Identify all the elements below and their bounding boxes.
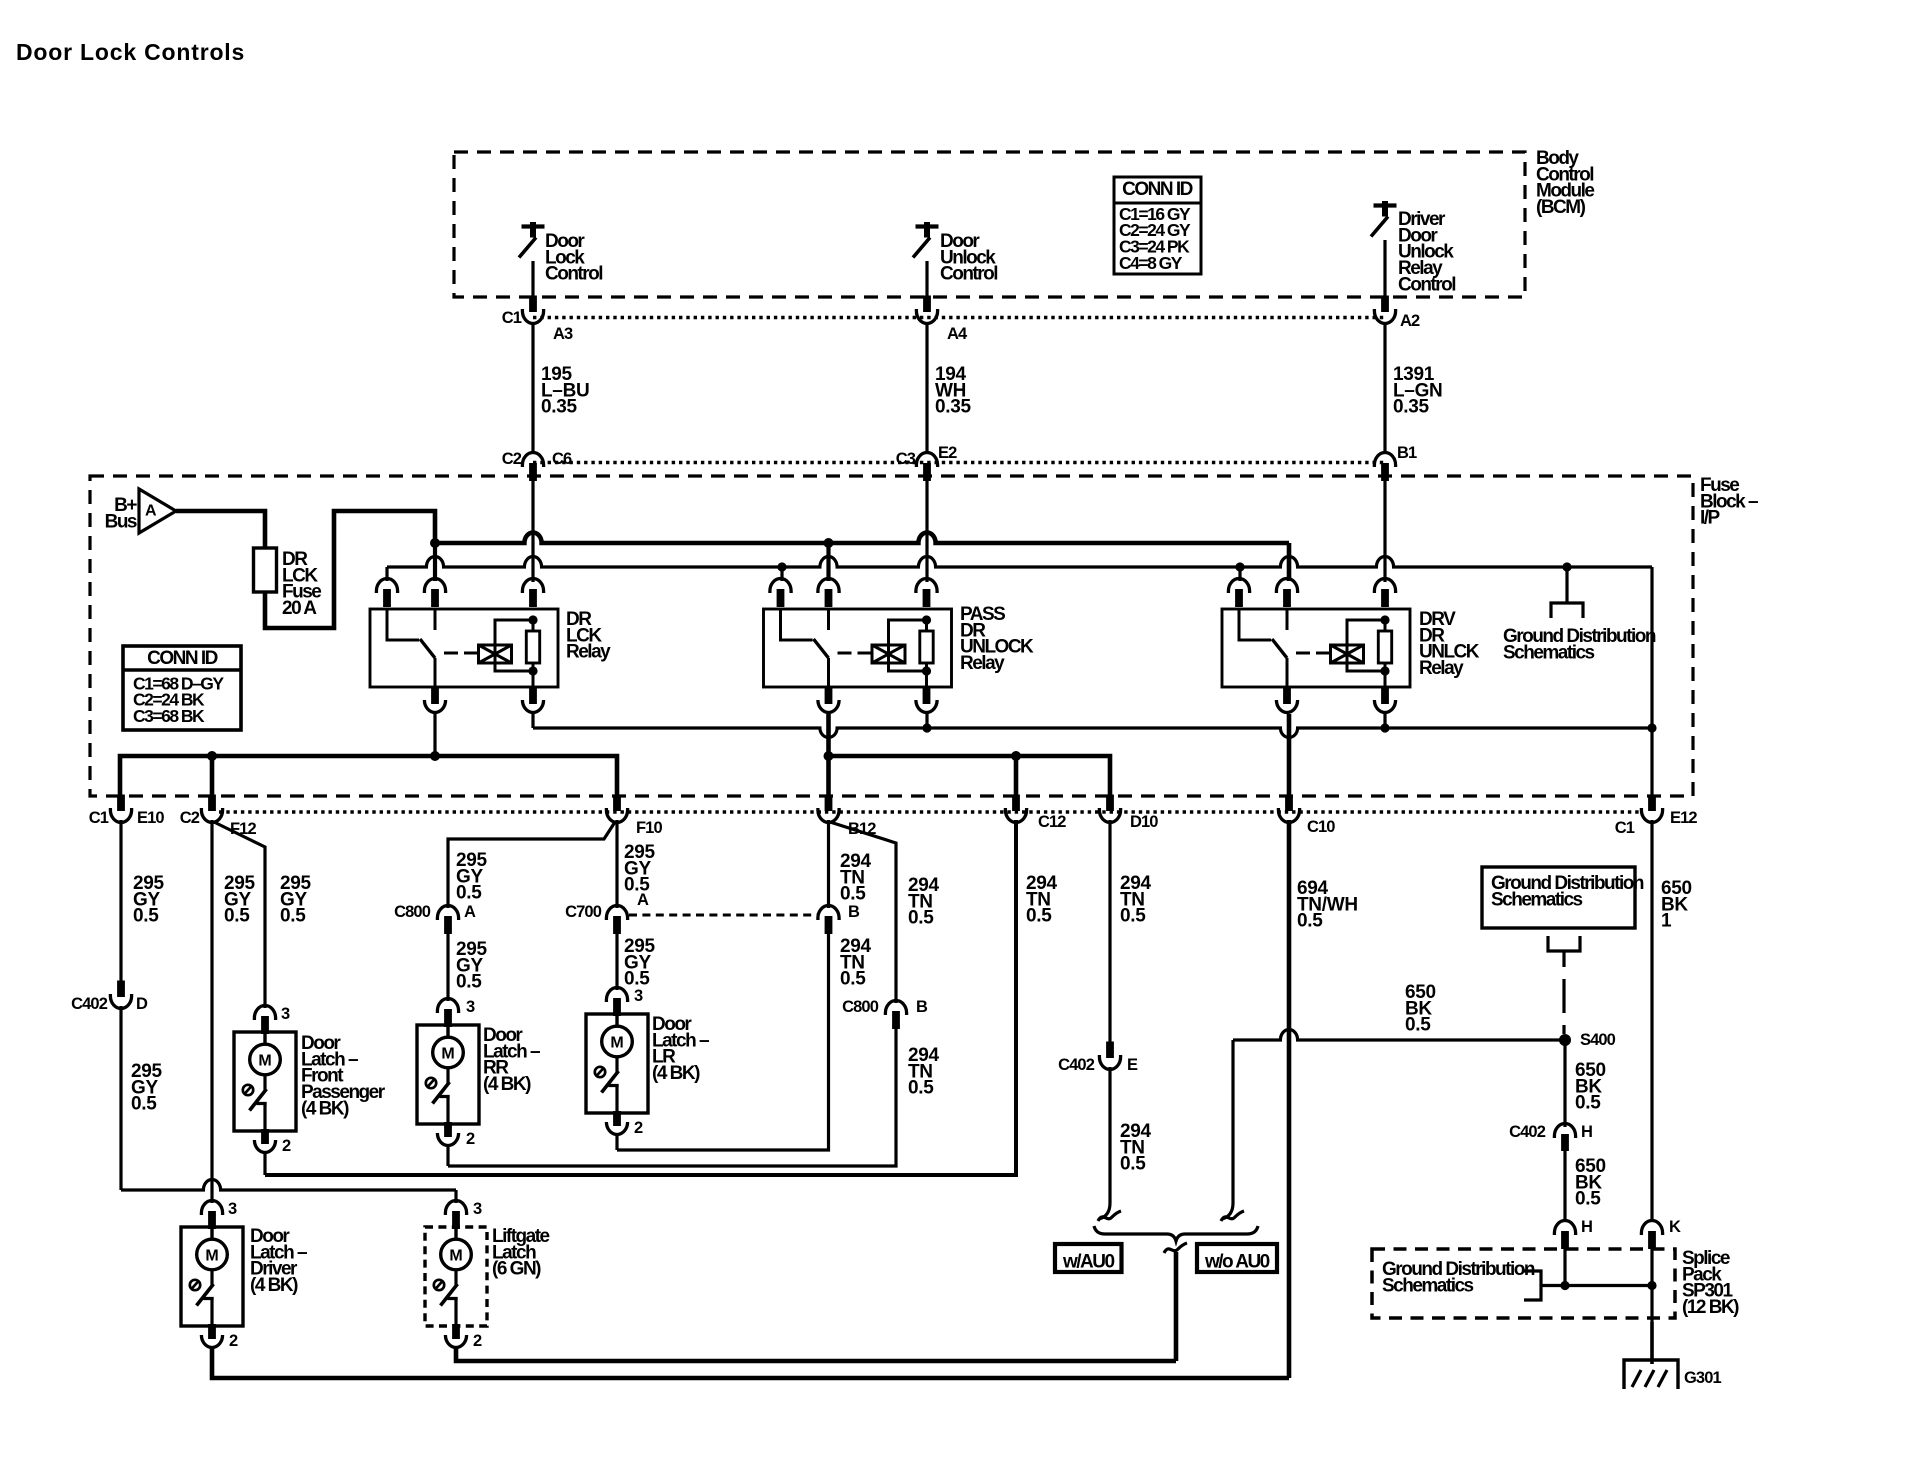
svg-text:B: B bbox=[848, 903, 860, 921]
svg-text:3: 3 bbox=[281, 1005, 290, 1023]
ground rail (relay contacts) bbox=[385, 567, 388, 581]
wire C800-B to RR latch return bbox=[448, 1028, 896, 1166]
connector C2 pin D10 bbox=[1099, 808, 1120, 822]
svg-text:(4 BK): (4 BK) bbox=[652, 1063, 700, 1084]
box w/o AU0 bbox=[1197, 1244, 1277, 1272]
wire PASS relay output (B12) bbox=[826, 714, 831, 795]
wire 295 GY 0.5 (below C402 D) bbox=[119, 1006, 122, 1190]
svg-text:Relay: Relay bbox=[1419, 658, 1464, 679]
wire end break (w/AU0) bbox=[1098, 1211, 1121, 1221]
connector C1 pin A4 bbox=[916, 309, 937, 323]
Door Latch - LR bbox=[606, 988, 627, 1002]
svg-text:0.5: 0.5 bbox=[280, 906, 306, 927]
wire DRV relay output (C10) bbox=[1287, 714, 1292, 795]
option brace bbox=[1094, 1226, 1258, 1241]
connector C1 pin E10 bbox=[110, 808, 131, 823]
junction ground rail / DRV relay pin 1 bbox=[1235, 562, 1244, 571]
svg-text:Schematics: Schematics bbox=[1491, 889, 1583, 910]
svg-text:I/P: I/P bbox=[1700, 508, 1721, 529]
wire from Door Lock Control switch bbox=[531, 261, 534, 297]
wire F10 to C700 bbox=[615, 820, 618, 908]
switch Door Unlock Control (BCM) bbox=[916, 224, 939, 228]
connector C402 pin E bbox=[1099, 1055, 1120, 1069]
Ground Distribution Schematics box (S400) bbox=[1482, 867, 1635, 928]
svg-text:0.5: 0.5 bbox=[1120, 1154, 1146, 1175]
svg-text:C2: C2 bbox=[180, 809, 200, 827]
connector pin B (option) bbox=[818, 906, 839, 920]
junction coil ground / PASS relay coil bbox=[922, 723, 931, 732]
svg-text:S400: S400 bbox=[1580, 1031, 1616, 1049]
svg-text:Door Lock Controls: Door Lock Controls bbox=[16, 39, 245, 65]
svg-text:0.5: 0.5 bbox=[1026, 906, 1052, 927]
wire F12 branch to Front Passenger latch bbox=[214, 822, 265, 1008]
connector C1 pin A3 bbox=[522, 309, 543, 323]
svg-text:0.5: 0.5 bbox=[456, 972, 482, 993]
splice S400 bbox=[1559, 1034, 1571, 1046]
svg-text:0.5: 0.5 bbox=[1120, 906, 1146, 927]
svg-text:(4 BK): (4 BK) bbox=[301, 1099, 349, 1120]
connector pin H (splice pack) bbox=[1554, 1221, 1575, 1236]
wire B+ feed to fuse bbox=[176, 511, 265, 548]
svg-text:(12 BK): (12 BK) bbox=[1682, 1297, 1739, 1318]
wire 650 BK 1 (E12) bbox=[1650, 820, 1653, 1222]
connector C402 pin D bbox=[110, 994, 131, 1009]
B+ bus (battery feed rail) bbox=[435, 533, 1289, 543]
svg-text:C800: C800 bbox=[394, 903, 431, 921]
svg-text:(4 BK): (4 BK) bbox=[483, 1074, 531, 1095]
svg-text:0.5: 0.5 bbox=[1297, 911, 1323, 932]
svg-text:2: 2 bbox=[634, 1119, 643, 1137]
svg-text:K: K bbox=[1669, 1218, 1681, 1236]
connector C3 pin E2 bbox=[916, 453, 937, 467]
connector C2 pin F12 bbox=[201, 808, 222, 822]
connector C800 pin A bbox=[437, 905, 458, 920]
wire Liftgate latch pin2 to option node bbox=[456, 1347, 1176, 1361]
svg-text:G301: G301 bbox=[1684, 1369, 1721, 1387]
wire 650 BK 0.5 to S400 bbox=[1233, 1030, 1565, 1041]
junction K / splice bus bbox=[1647, 1281, 1656, 1290]
svg-text:E2: E2 bbox=[938, 444, 957, 462]
svg-text:Control: Control bbox=[1398, 275, 1455, 296]
svg-text:3: 3 bbox=[473, 1200, 482, 1218]
wire LR latch pin2 down bbox=[615, 1134, 618, 1150]
wire option node down bbox=[1174, 1252, 1179, 1361]
connector pin B1 bbox=[1374, 453, 1395, 468]
relay PASS DR UNLOCK Relay bbox=[764, 609, 952, 687]
wire F12 to Door Latch Driver bbox=[210, 820, 213, 1203]
svg-text:0.5: 0.5 bbox=[224, 906, 250, 927]
svg-text:E12: E12 bbox=[1670, 809, 1697, 827]
connector C2 pin F10 bbox=[606, 808, 627, 822]
svg-text:D: D bbox=[136, 995, 148, 1013]
svg-text:E10: E10 bbox=[137, 809, 164, 827]
svg-text:0.5: 0.5 bbox=[1405, 1015, 1431, 1036]
svg-text:w/AU0: w/AU0 bbox=[1062, 1251, 1115, 1272]
splice bus SP301 bbox=[1565, 1249, 1652, 1322]
svg-text:C3: C3 bbox=[896, 450, 916, 468]
connector C700 pin A bbox=[606, 906, 627, 920]
svg-text:C12: C12 bbox=[1038, 813, 1066, 831]
svg-text:C1: C1 bbox=[1615, 819, 1635, 837]
dotted connector line (bottom row) bbox=[219, 810, 1641, 813]
wire 195 L-BU 0.35 bbox=[531, 322, 534, 453]
junction coil ground / DRV relay coil bbox=[1380, 723, 1389, 732]
wire B12 to connector B bbox=[827, 820, 830, 908]
svg-text:3: 3 bbox=[634, 987, 643, 1005]
connector pin K (splice pack) bbox=[1641, 1221, 1662, 1236]
svg-text:C402: C402 bbox=[71, 995, 108, 1013]
svg-text:20 A: 20 A bbox=[282, 598, 317, 619]
junction ground rail / PASS relay pin 1 bbox=[777, 562, 786, 571]
wire 294 TN 0.5 (w/AU0 drop) bbox=[1099, 1067, 1110, 1219]
svg-text:A4: A4 bbox=[947, 325, 968, 343]
connector C1 pin A2 bbox=[1374, 309, 1395, 324]
switch Door Lock Control (BCM) bbox=[522, 224, 545, 228]
svg-text:1: 1 bbox=[1661, 911, 1672, 932]
svg-text:B1: B1 bbox=[1397, 444, 1417, 462]
svg-text:(4 BK): (4 BK) bbox=[250, 1275, 298, 1296]
svg-text:Relay: Relay bbox=[960, 653, 1005, 674]
wire C402-D to liftgate latch bbox=[121, 1180, 456, 1191]
svg-text:0.5: 0.5 bbox=[133, 906, 159, 927]
wire C800-A to Door Latch RR bbox=[446, 933, 449, 1001]
wire E2 to PASS relay coil bbox=[925, 478, 928, 582]
svg-text:CONN ID: CONN ID bbox=[1122, 179, 1193, 200]
svg-text:0.35: 0.35 bbox=[541, 397, 578, 418]
wire C700-A to Door Latch LR bbox=[615, 933, 618, 990]
connector C2 pin C12 bbox=[1005, 808, 1026, 822]
svg-text:C402: C402 bbox=[1058, 1056, 1095, 1074]
wire B1 to DRV relay coil bbox=[1383, 478, 1386, 582]
svg-text:0.35: 0.35 bbox=[1393, 397, 1430, 418]
svg-text:C10: C10 bbox=[1307, 818, 1335, 836]
svg-text:M: M bbox=[205, 1248, 218, 1265]
bracket (splice pack) bbox=[1524, 1271, 1565, 1300]
connector C2 pin B12 bbox=[818, 808, 839, 822]
svg-text:C700: C700 bbox=[565, 903, 602, 921]
svg-text:C6: C6 bbox=[552, 450, 572, 468]
B+ Bus terminal A (triangle) bbox=[139, 489, 176, 533]
dotted connector line C2/C3/B1 bbox=[533, 461, 1385, 464]
svg-text:0.5: 0.5 bbox=[840, 969, 866, 990]
svg-text:C2: C2 bbox=[502, 450, 522, 468]
svg-text:2: 2 bbox=[229, 1332, 238, 1350]
bracket below box bbox=[1548, 936, 1580, 967]
svg-text:Relay: Relay bbox=[566, 642, 611, 663]
Door Latch - Front Passenger bbox=[254, 1005, 275, 1020]
wire 194 WH 0.35 bbox=[925, 322, 928, 453]
Fuse Block - I/P dashed box bbox=[90, 476, 1693, 796]
connector C2 pin C6 bbox=[522, 453, 543, 467]
svg-text:0.5: 0.5 bbox=[840, 884, 866, 905]
svg-text:E: E bbox=[1127, 1056, 1138, 1074]
CONN ID table (Fuse Block) bbox=[123, 646, 241, 730]
switch Driver Door Unlock Relay Control (BCM) bbox=[1374, 203, 1397, 207]
junction H / splice bus bbox=[1560, 1281, 1569, 1290]
svg-text:2: 2 bbox=[473, 1332, 482, 1350]
box w/AU0 bbox=[1055, 1244, 1122, 1272]
svg-text:0.5: 0.5 bbox=[456, 883, 482, 904]
connector C2 pin C10 bbox=[1278, 808, 1299, 822]
relay coil ground line bbox=[531, 713, 534, 728]
Ground Distribution Schematics reference (fuse block) bbox=[1562, 562, 1571, 571]
ground G301 bbox=[1624, 1360, 1678, 1389]
Door Latch - RR bbox=[437, 998, 458, 1013]
option node squiggle bbox=[1164, 1243, 1187, 1253]
svg-text:H: H bbox=[1581, 1218, 1592, 1236]
svg-text:Schematics: Schematics bbox=[1503, 642, 1595, 663]
junction rail / C12 drop bbox=[1011, 751, 1021, 761]
svg-text:D10: D10 bbox=[1130, 813, 1158, 831]
wire end break (w/o AU0) bbox=[1221, 1211, 1244, 1221]
junction B+ bus / PASS relay pin bbox=[824, 538, 834, 548]
svg-text:A: A bbox=[145, 503, 157, 520]
junction B12 wire / C12-D10 rail bbox=[824, 751, 834, 761]
svg-text:2: 2 bbox=[466, 1130, 475, 1148]
junction B+ bus / DR LCK relay pin bbox=[430, 538, 440, 548]
svg-text:C3=68 BK: C3=68 BK bbox=[133, 706, 205, 726]
relay output rail to E10/F12/F10 bbox=[120, 756, 617, 795]
wire C6 to DR LCK relay coil bbox=[531, 478, 534, 582]
svg-text:CONN ID: CONN ID bbox=[147, 648, 218, 669]
svg-text:A: A bbox=[464, 903, 476, 921]
wire option leg from S400 line bbox=[1222, 1040, 1233, 1219]
svg-text:A2: A2 bbox=[1400, 312, 1420, 330]
svg-text:Control: Control bbox=[545, 264, 602, 285]
svg-text:M: M bbox=[441, 1046, 454, 1063]
junction rail / F12 drop bbox=[207, 751, 217, 761]
svg-text:M: M bbox=[258, 1053, 271, 1070]
dotted connector line C1 (BCM) bbox=[533, 316, 1385, 319]
svg-text:M: M bbox=[610, 1035, 623, 1052]
svg-text:2: 2 bbox=[282, 1137, 291, 1155]
connector C800 pin B bbox=[885, 1001, 906, 1016]
wire C12 to Front Passenger return bbox=[265, 820, 1016, 1175]
wire B12 branch to C800-B bbox=[830, 822, 896, 1003]
svg-text:(6 GN): (6 GN) bbox=[492, 1259, 541, 1280]
dashed link to S400 bbox=[1562, 979, 1565, 1034]
wire 650 BK 0.5 to splice pack bbox=[1563, 1151, 1566, 1222]
wire RR latch pin2 down bbox=[446, 1145, 449, 1166]
wire Driver latch pin2 to C10 bbox=[212, 1347, 1289, 1378]
svg-text:A3: A3 bbox=[553, 325, 573, 343]
svg-text:3: 3 bbox=[466, 998, 475, 1016]
wire D10 to C402 E bbox=[1108, 820, 1111, 1043]
Liftgate Latch (dashed) bbox=[445, 1201, 466, 1216]
svg-text:Bus: Bus bbox=[105, 511, 137, 532]
svg-text:w/o AU0: w/o AU0 bbox=[1204, 1251, 1270, 1272]
svg-text:C1: C1 bbox=[89, 809, 109, 827]
wire from Driver Door Unlock Relay Control switch bbox=[1383, 240, 1386, 297]
wire FP latch pin2 down bbox=[263, 1152, 266, 1175]
svg-text:C402: C402 bbox=[1509, 1123, 1546, 1141]
svg-text:F10: F10 bbox=[636, 819, 662, 837]
wire 295 GY 0.5 (E10) bbox=[119, 820, 122, 982]
svg-text:(BCM): (BCM) bbox=[1536, 197, 1586, 218]
fuse DR LCK Fuse 20 A bbox=[254, 548, 277, 592]
dashed option line C700-A to B bbox=[629, 914, 817, 917]
junction rail / DR LCK relay output bbox=[430, 751, 440, 761]
junction coil ground / E12 wire bbox=[1647, 723, 1656, 732]
wire B to LR latch return bbox=[617, 933, 829, 1150]
svg-text:H: H bbox=[1581, 1123, 1592, 1141]
rail to C12/D10 bbox=[829, 756, 1111, 795]
svg-text:C4=8 GY: C4=8 GY bbox=[1119, 253, 1183, 273]
svg-text:B: B bbox=[916, 998, 928, 1016]
Door Latch - Driver bbox=[201, 1201, 222, 1216]
CONN ID table (BCM) bbox=[1114, 177, 1201, 274]
svg-text:A: A bbox=[637, 891, 649, 909]
svg-text:C1: C1 bbox=[502, 309, 522, 327]
wire 1391 L-GN 0.35 bbox=[1383, 322, 1386, 453]
wire 694 TN/WH 0.5 (C10) bbox=[1287, 820, 1292, 1378]
wire from Door Unlock Control switch bbox=[925, 261, 928, 297]
svg-text:0.5: 0.5 bbox=[131, 1094, 157, 1115]
Splice Pack SP301 dashed box bbox=[1372, 1249, 1675, 1318]
wire F10 branch to C800 bbox=[448, 822, 615, 908]
relay DR LCK Relay bbox=[370, 609, 558, 687]
svg-text:0.5: 0.5 bbox=[1575, 1093, 1601, 1114]
connector C1 pin E12 bbox=[1641, 808, 1662, 822]
svg-text:M: M bbox=[449, 1248, 462, 1265]
relay DRV DR UNLCK Relay bbox=[1222, 609, 1410, 687]
wire S400 to C402 H bbox=[1563, 1040, 1566, 1127]
svg-text:C800: C800 bbox=[842, 998, 879, 1016]
svg-text:3: 3 bbox=[228, 1200, 237, 1218]
wire DR LCK relay output to F12/E10 rail bbox=[433, 714, 436, 756]
svg-text:Schematics: Schematics bbox=[1382, 1275, 1474, 1296]
svg-text:0.5: 0.5 bbox=[908, 1078, 934, 1099]
connector C402 pin H bbox=[1554, 1124, 1575, 1139]
wire fuse to B+ bus bbox=[265, 511, 435, 628]
svg-text:Control: Control bbox=[940, 264, 997, 285]
svg-text:0.5: 0.5 bbox=[908, 908, 934, 929]
wire splice to G301 bbox=[1650, 1322, 1654, 1364]
svg-text:0.35: 0.35 bbox=[935, 397, 972, 418]
Body Control Module (BCM) dashed box bbox=[454, 152, 1525, 297]
svg-text:0.5: 0.5 bbox=[1575, 1189, 1601, 1210]
